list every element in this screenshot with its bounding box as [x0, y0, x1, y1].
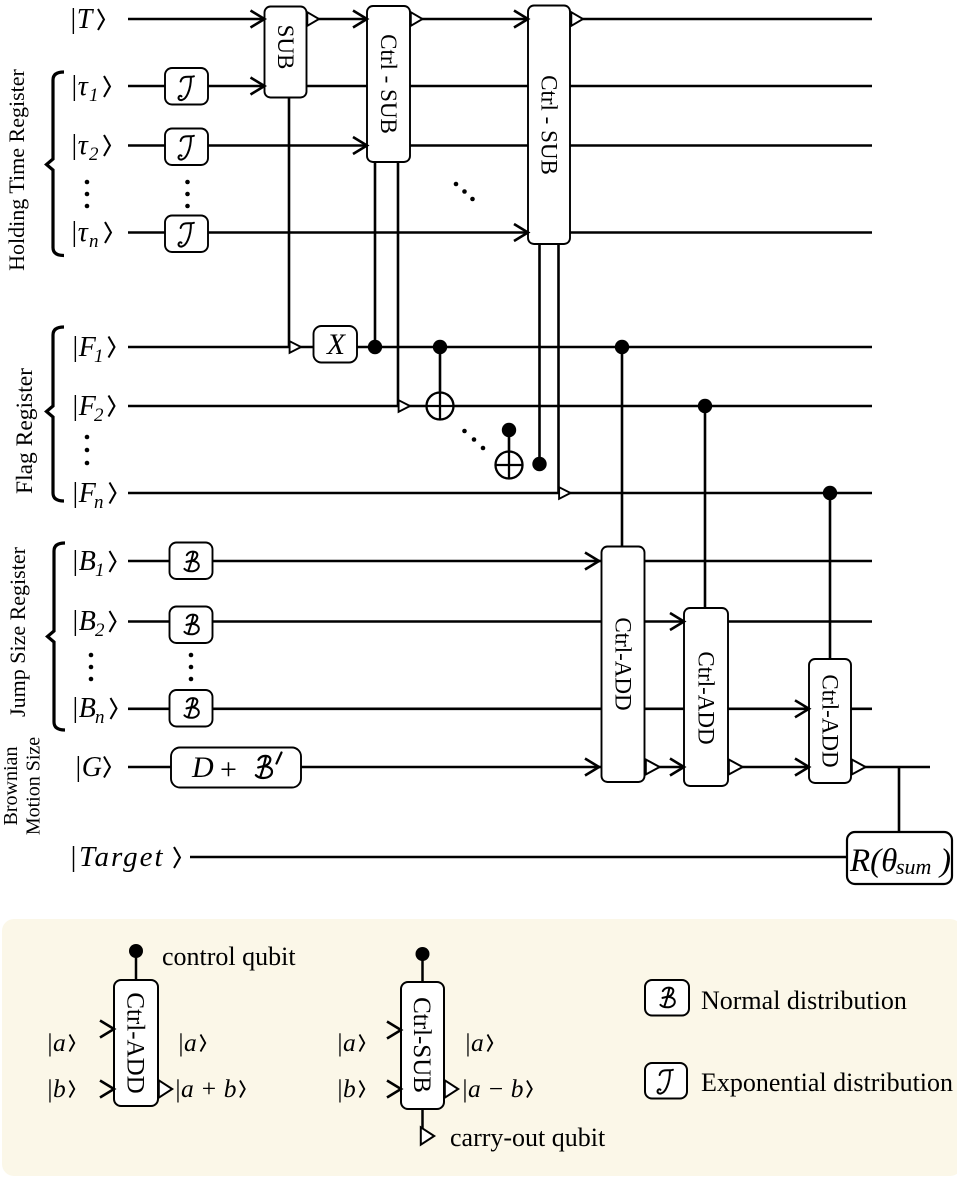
svg-text:Ctrl - SUB: Ctrl - SUB [537, 75, 562, 175]
svg-text:1: 1 [89, 85, 99, 106]
svg-text:Ctrl-ADD: Ctrl-ADD [611, 617, 636, 710]
svg-text:D: D [191, 751, 214, 784]
svg-text:): ) [938, 843, 951, 879]
svg-text:|G: |G [74, 752, 102, 783]
svg-text:Ctrl-ADD: Ctrl-ADD [818, 674, 843, 767]
svg-text:Brownian: Brownian [0, 747, 22, 826]
svg-text:|a + b: |a + b [174, 1074, 236, 1103]
svg-text:Motion Size: Motion Size [23, 737, 45, 835]
svg-text:Ctrl-ADD: Ctrl-ADD [694, 651, 719, 744]
svg-text:|B: |B [71, 693, 96, 724]
svg-text:|F: |F [71, 391, 97, 422]
svg-text:sum: sum [896, 854, 931, 879]
svg-text:Exponential distribution: Exponential distribution [701, 1068, 953, 1097]
svg-text:2: 2 [94, 405, 104, 426]
svg-text:Ctrl-SUB: Ctrl-SUB [408, 997, 435, 1093]
svg-text:+: + [220, 753, 237, 786]
svg-text:|a: |a [336, 1028, 356, 1057]
svg-text:1: 1 [94, 346, 104, 367]
svg-text:|a − b: |a − b [461, 1074, 523, 1103]
svg-text:|a: |a [46, 1028, 66, 1057]
svg-text:|F: |F [71, 478, 97, 509]
svg-text:n: n [95, 707, 105, 728]
svg-text:Holding Time Register: Holding Time Register [4, 68, 29, 270]
svg-text:|b: |b [336, 1074, 356, 1103]
svg-text:|a: |a [464, 1028, 484, 1057]
svg-text:n: n [89, 231, 99, 252]
svg-text:|τ: |τ [70, 71, 89, 102]
svg-text:Flag Register: Flag Register [12, 368, 38, 494]
svg-text:carry-out qubit: carry-out qubit [450, 1123, 606, 1152]
svg-text:2: 2 [89, 144, 99, 165]
svg-text:Jump Size Register: Jump Size Register [5, 546, 30, 717]
svg-text:|T: |T [69, 4, 95, 35]
svg-text:Ctrl-ADD: Ctrl-ADD [122, 992, 149, 1093]
svg-text:|B: |B [71, 606, 96, 637]
svg-text:|b: |b [46, 1074, 66, 1103]
svg-text:|B: |B [71, 546, 96, 577]
svg-text:1: 1 [95, 560, 105, 581]
svg-text:X: X [326, 329, 346, 361]
svg-text:Ctrl - SUB: Ctrl - SUB [376, 34, 401, 134]
svg-text:|Target: |Target [69, 841, 165, 873]
svg-text:2: 2 [95, 620, 105, 641]
svg-text:control qubit: control qubit [162, 942, 296, 971]
svg-text:|τ: |τ [70, 130, 89, 161]
svg-text:Normal distribution: Normal distribution [701, 986, 907, 1015]
svg-text:|a: |a [177, 1028, 197, 1057]
svg-text:|τ: |τ [70, 217, 89, 248]
svg-text:|F: |F [71, 332, 97, 363]
svg-text:R(θ: R(θ [849, 843, 897, 879]
svg-text:SUB: SUB [273, 25, 298, 70]
svg-text:n: n [94, 492, 104, 513]
